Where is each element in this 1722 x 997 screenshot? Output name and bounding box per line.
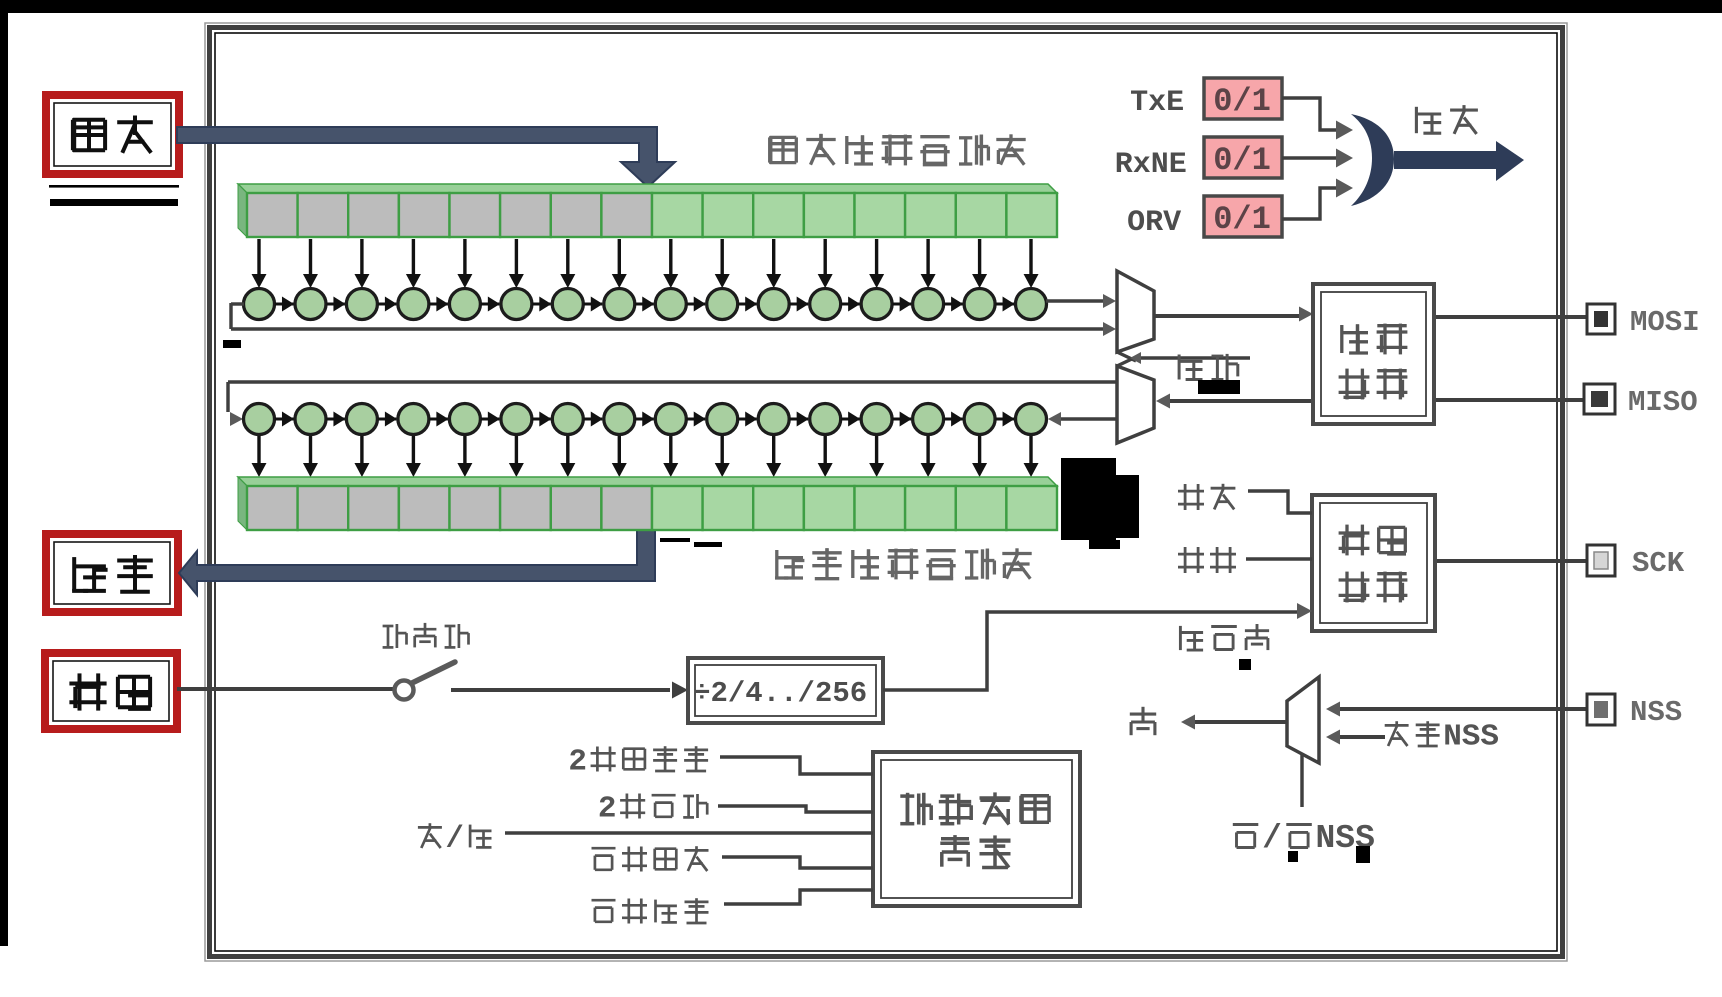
- baud rate wire: [883, 612, 1298, 690]
- wire 单线接收: [724, 890, 873, 904]
- wire ORV to OR: [1282, 188, 1336, 219]
- svg-text:TxE: TxE: [1130, 86, 1184, 120]
- wire 主/从: [505, 831, 873, 834]
- wire 顺序 select: [1140, 356, 1250, 359]
- wire last tx bit to mux: [1046, 299, 1105, 302]
- wire TxE to OR: [1282, 98, 1336, 130]
- wire 极性: [1248, 491, 1312, 513]
- flag TxE 0/1: [1204, 78, 1282, 119]
- pin MISO: [1584, 384, 1615, 414]
- label 极性: [1178, 484, 1204, 510]
- annotation lines under transmit box: [49, 185, 179, 188]
- pin SCK: [1587, 545, 1615, 576]
- pin MOSI: [1587, 304, 1615, 334]
- wire mux to 高: [1195, 720, 1287, 724]
- wire 内部NSS: [1340, 735, 1385, 739]
- receive bus arrow: [179, 530, 655, 595]
- label 发送数据寄存器: [770, 136, 797, 164]
- svg-text:MISO: MISO: [1628, 386, 1698, 419]
- svg-text:SCK: SCK: [1632, 547, 1685, 580]
- svg-text:/: /: [1262, 820, 1282, 857]
- box 时钟 (clock): [45, 653, 177, 729]
- label 波特率: [1180, 626, 1203, 650]
- wire mux to last rx bit: [1060, 417, 1117, 420]
- wire 2线全双工: [720, 757, 873, 774]
- arrows bits to receive register: [252, 436, 1039, 477]
- small blob: [223, 340, 241, 348]
- wire 相位: [1246, 557, 1312, 560]
- mux upper (tx path): [1117, 271, 1154, 352]
- interrupt arrow: [1394, 151, 1496, 169]
- svg-text:2: 2: [598, 792, 617, 827]
- label 接收数据寄存器: [775, 550, 804, 578]
- wire mux to data control: [1154, 314, 1300, 318]
- receive shift register bit circles: [244, 404, 1047, 435]
- mux select cross: [1117, 352, 1136, 361]
- arrows register to shift bits: [252, 239, 1039, 288]
- NSS mode stub: [1300, 755, 1303, 807]
- wire data control to mux: [1168, 399, 1313, 403]
- label 软/硬NSS: [1233, 825, 1259, 848]
- box 通信方向选择: [873, 752, 1080, 906]
- flag ORV 0/1: [1204, 196, 1282, 237]
- label 主/从: [418, 823, 442, 848]
- label 相位: [1178, 547, 1204, 573]
- receive data register RDR: [238, 477, 1057, 530]
- wire MISO: [1434, 398, 1586, 402]
- small dashes: [660, 538, 690, 542]
- NSS mux: [1287, 677, 1319, 763]
- box 时钟控制 (clock control): [1312, 495, 1435, 631]
- svg-text:/: /: [445, 822, 464, 857]
- transmit shift register bit circles: [244, 289, 1047, 320]
- label 单线接收: [592, 900, 616, 922]
- box 接收 (receive): [46, 534, 178, 612]
- svg-text:NSS: NSS: [1630, 696, 1682, 729]
- transmit bus arrow: [177, 127, 675, 187]
- divider box ÷2/4../256: [688, 658, 883, 723]
- black blob artifact: [1061, 458, 1116, 540]
- svg-text:2: 2: [568, 745, 587, 780]
- box 发送 (transmit): [46, 95, 179, 174]
- pin NSS: [1587, 694, 1615, 725]
- clock wire: [177, 687, 393, 691]
- receive top wire: [228, 380, 1117, 383]
- left black bar: [0, 0, 8, 946]
- svg-text:÷2/4../256: ÷2/4../256: [693, 677, 867, 710]
- mux lower (rx path): [1117, 366, 1154, 443]
- label 总开关: [383, 624, 407, 648]
- wire RxNE to OR: [1282, 156, 1336, 159]
- wire 单线发送: [722, 857, 873, 868]
- label 高: [1130, 707, 1156, 735]
- NSS wire from pin to mux: [1340, 707, 1589, 711]
- svg-text:0/1: 0/1: [1213, 142, 1271, 179]
- wire SCK: [1435, 559, 1589, 563]
- svg-text:NSS: NSS: [1443, 720, 1499, 755]
- top black bar: [0, 0, 1722, 13]
- wire switch to divider: [451, 688, 670, 692]
- label 中断 (interrupt): [1416, 107, 1441, 133]
- box 数据控制 (data control): [1313, 284, 1434, 424]
- wire 2线只读: [718, 806, 873, 812]
- svg-text:MOSI: MOSI: [1630, 306, 1700, 339]
- wire MOSI: [1434, 315, 1589, 319]
- label 内部NSS: [1385, 721, 1409, 746]
- outer frame: [205, 23, 1567, 961]
- transmit feedback wire: [231, 302, 244, 305]
- svg-text:0/1: 0/1: [1213, 83, 1271, 120]
- label 顺序: [1179, 355, 1202, 380]
- label 单线发送: [592, 848, 616, 870]
- svg-text:ORV: ORV: [1127, 206, 1181, 240]
- flag RxNE 0/1: [1204, 137, 1282, 178]
- svg-text:0/1: 0/1: [1213, 201, 1271, 238]
- switch 总开关: [395, 681, 414, 700]
- OR gate: [1351, 114, 1394, 206]
- svg-text:RxNE: RxNE: [1115, 148, 1187, 182]
- transmit data register TDR: [238, 184, 1057, 237]
